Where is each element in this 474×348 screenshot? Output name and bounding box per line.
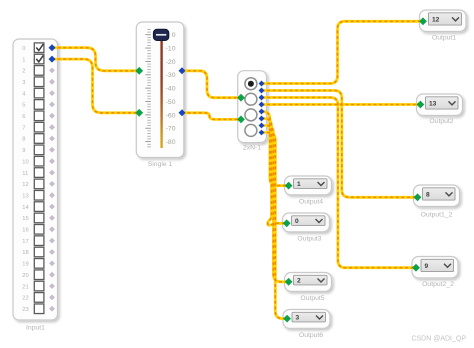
svg-text:15: 15: [22, 216, 28, 222]
svg-text:-50: -50: [166, 99, 176, 106]
svg-text:11: 11: [22, 171, 28, 177]
svg-text:21: 21: [22, 284, 28, 290]
svg-text:Output2: Output2: [429, 118, 453, 125]
svg-text:Output1: Output1: [432, 35, 456, 42]
svg-text:10: 10: [22, 159, 28, 165]
svg-text:-10: -10: [166, 45, 176, 52]
svg-text:Output2_2: Output2_2: [422, 281, 454, 288]
svg-text:-80: -80: [166, 139, 176, 146]
svg-text:1: 1: [22, 57, 25, 63]
svg-text:0: 0: [22, 46, 25, 52]
svg-text:-40: -40: [166, 86, 176, 93]
svg-text:3: 3: [296, 315, 300, 322]
svg-text:9: 9: [22, 148, 25, 154]
svg-text:-30: -30: [166, 72, 176, 79]
svg-text:8: 8: [426, 192, 430, 199]
svg-text:CSDN @ADI_QP: CSDN @ADI_QP: [411, 336, 466, 343]
svg-text:2xN-1: 2xN-1: [243, 145, 261, 152]
svg-text:22: 22: [22, 296, 28, 302]
svg-text:0: 0: [295, 218, 299, 225]
svg-text:19: 19: [22, 262, 28, 268]
svg-text:9: 9: [425, 263, 429, 270]
svg-text:1: 1: [297, 181, 301, 188]
svg-text:12: 12: [432, 17, 440, 24]
svg-text:20: 20: [22, 273, 28, 279]
svg-text:14: 14: [22, 205, 29, 211]
svg-text:8: 8: [22, 137, 25, 143]
svg-text:16: 16: [22, 228, 28, 234]
svg-text:17: 17: [22, 239, 28, 245]
svg-text:Single 1: Single 1: [148, 161, 173, 168]
svg-text:23: 23: [22, 307, 28, 313]
svg-text:0: 0: [172, 32, 176, 39]
svg-text:Output6: Output6: [299, 332, 323, 339]
svg-text:Input1: Input1: [26, 325, 45, 332]
svg-text:Output4: Output4: [299, 199, 323, 206]
svg-text:18: 18: [22, 250, 28, 256]
svg-text:Output3: Output3: [297, 236, 321, 243]
svg-text:2: 2: [297, 278, 301, 285]
svg-text:Output5: Output5: [300, 295, 324, 302]
svg-text:6: 6: [22, 114, 25, 120]
svg-text:7: 7: [22, 125, 25, 131]
svg-text:-20: -20: [166, 59, 176, 66]
svg-text:13: 13: [429, 101, 437, 108]
svg-text:-60: -60: [166, 112, 176, 119]
svg-text:3: 3: [22, 80, 25, 86]
svg-text:13: 13: [22, 193, 28, 199]
svg-text:-70: -70: [166, 126, 176, 133]
svg-text:12: 12: [22, 182, 28, 188]
svg-text:Output1_2: Output1_2: [421, 211, 453, 218]
svg-text:2: 2: [22, 69, 25, 75]
svg-text:5: 5: [22, 103, 25, 109]
